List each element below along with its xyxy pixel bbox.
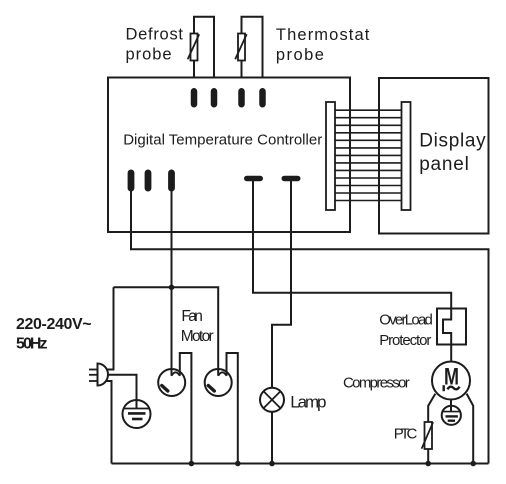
svg-text:Digital Temperature Controller: Digital Temperature Controller	[123, 132, 322, 149]
fan motor label	[181, 308, 214, 345]
svg-text:PTC: PTC	[394, 426, 418, 443]
live distribution wire to fan motors	[114, 287, 219, 376]
svg-text:Defrost: Defrost	[126, 26, 184, 44]
wire lamp to bus	[271, 412, 273, 464]
svg-text:Fan: Fan	[181, 308, 203, 325]
controller bottom-left terminal pins	[128, 170, 175, 192]
display panel label	[419, 131, 486, 176]
bottom bus wire	[112, 463, 489, 465]
display panel box	[379, 78, 489, 234]
fan motor M2	[205, 353, 238, 464]
svg-text:Compressor: Compressor	[343, 375, 410, 392]
junction dot PTC on bus	[425, 461, 431, 467]
compressor earth ground symbol E2	[442, 399, 461, 425]
svg-text:Thermostat: Thermostat	[276, 26, 370, 44]
svg-text:probe: probe	[276, 46, 324, 64]
wire controller pin4 to overload protector	[253, 181, 451, 309]
junction dot compressor on bus	[470, 461, 476, 467]
overload protector label	[379, 312, 433, 349]
svg-text:Display: Display	[419, 131, 486, 152]
wire controller pin1 to right-side neutral drop	[131, 191, 489, 464]
wire plug earth to ground	[104, 375, 137, 409]
junction dot fan branch	[169, 285, 175, 291]
thermostat probe sensor RT2	[235, 17, 262, 88]
wire controller pin5 to lamp	[272, 181, 291, 388]
controller top terminal pins	[191, 88, 266, 108]
wire plug live riser	[104, 287, 114, 369]
overload protector OL1	[437, 309, 466, 345]
PTC thermistor RT3	[422, 422, 434, 464]
fan motor M1	[158, 353, 191, 464]
svg-text:Lamp: Lamp	[290, 392, 326, 411]
mains plug P1	[89, 364, 108, 386]
svg-text:OverLoad: OverLoad	[379, 312, 433, 329]
earth ground symbol E1	[123, 400, 151, 428]
svg-text:Motor: Motor	[181, 328, 214, 345]
wire plug neutral to bus	[104, 381, 112, 464]
wire controller pin3 to fan motor M1	[171, 191, 173, 376]
svg-text:Protector: Protector	[379, 332, 431, 349]
thermostat probe label	[276, 26, 370, 64]
junction dot motor M2 on bus	[235, 461, 241, 467]
junction dot motor M1 on bus	[189, 461, 195, 467]
svg-text:panel: panel	[419, 154, 469, 175]
compressor left lead	[428, 394, 435, 422]
ribbon cable between controller and display	[331, 110, 406, 200]
svg-text:220-240V~: 220-240V~	[16, 316, 92, 333]
lamp L1	[260, 388, 284, 412]
compressor motor M3	[432, 362, 470, 400]
ribbon connector left	[326, 102, 335, 210]
wire overload to compressor	[450, 345, 452, 362]
svg-text:probe: probe	[126, 46, 172, 64]
ribbon connector right	[402, 102, 411, 210]
controller bottom horizontal pins	[244, 176, 301, 182]
svg-text:50Hz: 50Hz	[16, 336, 48, 353]
defrost probe sensor RT1	[188, 17, 214, 88]
compressor right lead	[467, 394, 474, 464]
mains voltage label	[16, 316, 92, 353]
junction dot lamp on bus	[269, 461, 275, 467]
digital temperature controller box U1	[108, 78, 350, 233]
defrost probe label	[126, 26, 184, 64]
